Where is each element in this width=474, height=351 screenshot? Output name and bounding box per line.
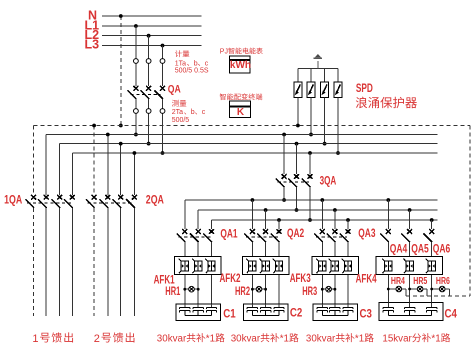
svg-text:kWh: kWh: [230, 60, 251, 71]
svg-text:*1: *1: [431, 334, 440, 345]
svg-text:HR3: HR3: [302, 284, 317, 298]
svg-text:L3: L3: [85, 38, 100, 52]
svg-text:c: c: [205, 61, 209, 68]
svg-text:30kvar: 30kvar: [157, 334, 187, 345]
svg-text:C3: C3: [360, 306, 373, 320]
svg-text:QA1: QA1: [220, 227, 237, 241]
svg-text:QA2: QA2: [287, 226, 304, 240]
svg-text:*1: *1: [206, 334, 215, 345]
svg-text:3QA: 3QA: [320, 176, 337, 188]
svg-text:500/5 0.5S: 500/5 0.5S: [175, 68, 209, 75]
svg-text:*1: *1: [280, 334, 289, 345]
svg-text:15kvar: 15kvar: [382, 334, 412, 345]
svg-text:1QA: 1QA: [4, 194, 22, 206]
svg-text:b: b: [194, 61, 198, 68]
svg-text:QA: QA: [168, 83, 181, 95]
svg-text:c: c: [202, 109, 206, 116]
svg-text:HR2: HR2: [235, 284, 250, 298]
svg-text:HR5: HR5: [413, 276, 427, 287]
svg-text:C2: C2: [290, 306, 303, 320]
svg-text:QA6: QA6: [433, 241, 451, 255]
svg-text:K: K: [237, 107, 245, 118]
svg-text:AFK4: AFK4: [356, 273, 377, 285]
svg-text:2Ta: 2Ta: [172, 109, 183, 116]
svg-text:SPD: SPD: [356, 83, 373, 95]
svg-text:HR4: HR4: [391, 276, 405, 287]
svg-text:PJ: PJ: [220, 49, 228, 56]
svg-text:C4: C4: [445, 306, 458, 320]
svg-text:30kvar: 30kvar: [306, 334, 336, 345]
svg-text:1Ta: 1Ta: [175, 61, 186, 68]
svg-text:1: 1: [32, 333, 39, 345]
svg-text:*1: *1: [355, 334, 364, 345]
svg-text:HR6: HR6: [436, 276, 450, 287]
svg-text:QA3: QA3: [358, 226, 375, 240]
svg-text:C1: C1: [223, 306, 236, 320]
svg-text:HR1: HR1: [165, 284, 180, 298]
svg-text:b: b: [191, 109, 195, 116]
svg-text:2: 2: [94, 333, 101, 345]
svg-text:QA4: QA4: [390, 241, 408, 255]
svg-text:2QA: 2QA: [146, 194, 164, 206]
svg-text:30kvar: 30kvar: [231, 334, 261, 345]
svg-text:500/5: 500/5: [172, 117, 190, 124]
svg-text:QA5: QA5: [411, 241, 429, 255]
